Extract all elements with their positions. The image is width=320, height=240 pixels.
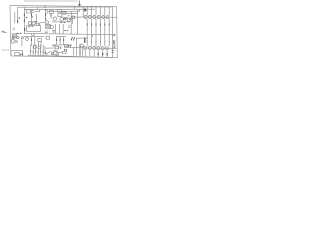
- text left margin mid: [13, 28, 16, 30]
- wire y45: [64, 44, 72, 46]
- page crop line top: [24, 0, 78, 2]
- vertical x83.2: [82, 7, 84, 17]
- vertical x47.2: [46, 9, 48, 14]
- marks top right: [68, 26, 70, 27]
- wire bottom bus left: [28, 54, 45, 56]
- transistor Q6: [60, 18, 63, 21]
- marks at 38.5: [38, 24, 40, 26]
- transistor Q7: [67, 18, 70, 21]
- box B3: [64, 17, 67, 19]
- speaker LS1: [52, 51, 57, 55]
- wire speaker: [57, 51, 62, 53]
- tick right of B3: [69, 18, 71, 20]
- wire output bus: [24, 33, 112, 34]
- plus marks left: [18, 17, 20, 19]
- dark bar cap: [84, 37, 86, 43]
- box bottom-left: [15, 53, 20, 56]
- wire under cluster: [52, 44, 66, 47]
- marks under cluster: [53, 44, 56, 46]
- dark glyph x24.6: [24, 28, 26, 31]
- cap C2 plus: [45, 9, 47, 11]
- vertical x31.5 low: [31, 37, 33, 46]
- left comb blobs: [31, 50, 44, 53]
- wire mid: [74, 16, 84, 18]
- dark box B1: [62, 12, 66, 14]
- node inner corner: [17, 7, 19, 23]
- wire y36.7 row: [24, 36, 44, 38]
- wire rail right drop: [111, 7, 113, 58]
- B3 inner dash: [64, 17, 66, 19]
- tick x37.3: [36, 7, 38, 9]
- resistor col R11: [45, 10, 47, 21]
- wire rail C: [48, 10, 80, 12]
- wire input bottom: [10, 49, 22, 51]
- text below Q9: [52, 31, 55, 32]
- circle D2: [26, 38, 29, 41]
- wire rail B: [24, 8, 95, 10]
- dark column x80: [79, 44, 81, 56]
- vertical v2: [71, 9, 77, 34]
- text marks below: [45, 31, 48, 33]
- label above speaker: [53, 49, 56, 51]
- wire stub y11.5: [35, 11, 39, 13]
- cluster mid-bottom verticals: [57, 37, 64, 45]
- box battery: [12, 39, 15, 43]
- vertical x45 low: [44, 46, 46, 52]
- transistor small T1: [34, 46, 37, 49]
- top-left cap C1: [27, 10, 31, 13]
- emitter columns upper: [87, 19, 109, 35]
- plus marks above pair: [26, 16, 33, 19]
- wire y21.8: [52, 21, 70, 23]
- box at 55.5 y46.5: [55, 47, 58, 49]
- vertical x31.5 into box: [31, 10, 33, 26]
- wire base bus top: [84, 16, 110, 18]
- dash above Q7: [68, 15, 70, 17]
- supply arrow top: [78, 0, 80, 6]
- wire y47.3: [64, 46, 84, 48]
- mid verticals group: [74, 47, 83, 56]
- wire rail A: [18, 6, 113, 8]
- dark blob rails end: [84, 9, 86, 12]
- rect mid-left: [38, 39, 42, 42]
- transistor pair left: [28, 22, 31, 25]
- vertical x51: [50, 13, 52, 19]
- right margin labels: [113, 34, 116, 35]
- border frame: [10, 6, 117, 58]
- vertical border stub: [10, 51, 12, 56]
- transistor Q8: [71, 16, 74, 19]
- box R out: [62, 51, 66, 53]
- wire base bus bottom: [83, 47, 109, 49]
- wire left vertical: [14, 12, 16, 23]
- bus dark segments: [17, 32, 22, 34]
- emitter columns lower: [87, 35, 109, 47]
- resistor blobs lower: [87, 41, 109, 43]
- dark dashes under: [60, 21, 65, 23]
- vertical x34.8 low: [34, 37, 36, 46]
- small circles row: [12, 36, 14, 38]
- wire y38.1: [76, 37, 88, 39]
- transistor feed comb top: [87, 7, 109, 16]
- diagonal into speaker: [46, 51, 51, 55]
- collector columns bottom: [85, 50, 107, 58]
- X box D1: [46, 25, 51, 29]
- verticals below rect: [39, 41, 42, 46]
- transistor Q row bottom: [84, 46, 109, 50]
- resistor blob on x17.6: [17, 20, 19, 23]
- resistor blobs on x24.4: [23, 14, 25, 22]
- resistor blobs bottom: [98, 53, 107, 56]
- box B2: [58, 14, 62, 17]
- cluster blobs: [57, 39, 64, 42]
- label +12: [32, 11, 34, 13]
- dark marks x64-68 y30: [64, 29, 68, 31]
- transistor Q4: [45, 21, 48, 24]
- wire rail D: [66, 12, 78, 14]
- box R small: [50, 11, 54, 14]
- wire to Q4: [40, 21, 45, 23]
- small rect near 65: [65, 45, 68, 47]
- wire y36.4: [56, 35, 66, 37]
- marks near 58-62 y47: [59, 46, 61, 48]
- marks below box: [32, 34, 35, 35]
- dark marks bottom-left: [21, 53, 23, 55]
- vertical left low: [21, 39, 23, 46]
- dark blobs 64-67 y49: [65, 49, 67, 51]
- dark dash x35: [35, 20, 37, 22]
- resistor blobs upper: [87, 23, 109, 25]
- vertical x36.3: [35, 14, 37, 23]
- left comb columns: [31, 45, 44, 56]
- label +40 top: [44, 6, 46, 8]
- vertical x24.4: [23, 7, 25, 33]
- cap plate pair: [73, 16, 75, 19]
- fuse F1: [57, 9, 61, 12]
- wire stub: [30, 21, 36, 23]
- transistor Q5: [53, 17, 56, 20]
- transistor Q9: [50, 26, 53, 29]
- vertical drop: [21, 50, 23, 55]
- wire y48: [46, 47, 55, 49]
- transistor Q row top: [84, 15, 109, 18]
- wire to right border top: [109, 16, 116, 18]
- X box switch: [12, 34, 16, 38]
- transistor small T2: [38, 46, 41, 49]
- junction blob on bus: [91, 35, 93, 37]
- junction tick x79.5: [79, 9, 81, 11]
- squiggle input: [1, 31, 6, 33]
- vertical to rail: [57, 53, 59, 57]
- wire to right border bottom: [109, 47, 117, 49]
- marks right of battery: [16, 40, 17, 43]
- wire bottom rail: [45, 56, 113, 58]
- vertical x36.2: [35, 23, 37, 25]
- slanted text 44: [71, 37, 74, 41]
- bottom-left margin text: [2, 49, 9, 51]
- text in box: [28, 26, 33, 28]
- IC box U1: [27, 26, 41, 32]
- junction marks x74.6: [74, 7, 76, 9]
- vertical x72.7: [72, 16, 74, 24]
- wire y23.2: [35, 22, 40, 24]
- diagonal mark: [31, 35, 34, 37]
- box small: [46, 36, 50, 39]
- dark plus bottom: [44, 52, 46, 54]
- dark marks 68-71: [69, 45, 71, 47]
- tick x39.7: [39, 9, 41, 12]
- capacitor ellipse C out: [80, 44, 84, 47]
- vertical x76.6: [76, 38, 78, 47]
- center verticals to bus: [56, 24, 64, 34]
